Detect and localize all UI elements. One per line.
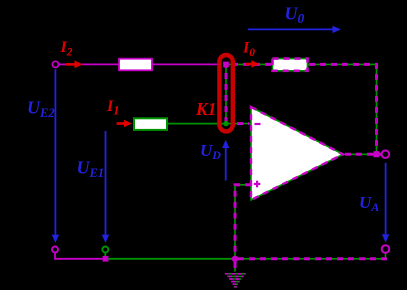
svg-text:K1: K1: [195, 99, 216, 119]
